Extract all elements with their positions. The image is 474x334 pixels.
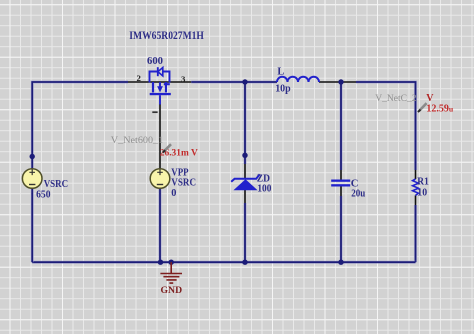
transistor Q1 body-diode loop [150,72,170,83]
label VSRC (V1) [44,179,68,190]
label 600 (MOSFET value) [147,56,163,67]
wire: right vertical below resistor [414,205,417,262]
junction dot inductor out [338,79,343,84]
junction dot capacitor bottom [338,260,343,265]
wire: top net to right corner [356,82,416,170]
wire: bottom ground net [32,261,415,264]
V2 plus sign [157,170,163,176]
svg-text:20u: 20u [351,188,365,199]
junction dot zener mid [242,153,247,158]
transistor Q1 body-diode triangle [158,68,163,76]
svg-text:VSRC: VSRC [44,179,68,190]
transistor Q1 gate stem [159,95,161,104]
svg-text:GND: GND [161,285,183,296]
value 100 [257,183,271,194]
svg-text:600: 600 [147,56,163,67]
transistor Q1 drain stub [152,82,154,92]
junction dot zener top [242,79,247,84]
ground bars [160,274,182,284]
junction dot zener bottom [242,260,247,265]
inductor L coil [277,77,319,82]
probe pencil left [163,144,171,152]
wire: resistor top lead (black) [415,170,417,179]
label IMW65R027M1H [129,28,204,42]
wire: left vertical below VSRC [31,188,34,262]
voltage source V1 (VSRC 650) [22,169,42,189]
wire: MOSFET pin3 to zener junction and inductor [191,80,277,83]
V2 minus sign [157,184,163,186]
junction dot left net [30,154,35,159]
pin number 2 [137,73,142,83]
junction dot GND tap [169,260,174,265]
wire: top net left segment (VSRC+ to MOSFET pin 2) [32,82,128,169]
voltage source V2 (VPP VSRC 0) [150,169,170,189]
transistor Q1 body-diode bar [157,67,159,76]
svg-text:100: 100 [257,183,271,194]
wire: resistor bottom lead (black) [415,195,417,205]
value 650 [36,190,50,201]
V1 plus sign [29,170,35,176]
wire: inductor right lead (black) [319,81,356,83]
value 0 [171,188,176,199]
wire: capacitor leads (black) [340,170,342,196]
svg-text:V_Net600_1: V_Net600_1 [111,136,164,146]
ground stem [170,262,172,273]
label VSRC (V2) [171,177,196,188]
probe reading 12.59u [426,104,454,115]
junction dot VPP bottom [158,260,163,265]
net label V_Net600_1 [111,136,164,146]
wire: zener leads (black) [244,164,246,203]
svg-text:10: 10 [417,187,427,198]
transistor Q1 channel bar [150,93,171,95]
wire: MOSFET lead segment (black) [128,81,191,83]
net label V_NetC_2 [375,93,416,104]
label GND [161,285,183,296]
svg-text:R1: R1 [417,177,429,188]
label C [351,179,359,190]
V1 minus sign [29,184,35,186]
wire: VPP bottom to ground net [158,188,161,262]
zener diode ZD triangle [233,179,257,190]
svg-text:V_NetC_2: V_NetC_2 [375,93,416,104]
probe label V right [426,93,434,104]
svg-text:V: V [426,93,434,104]
wire: capacitor branch upper [339,82,342,170]
probe pencil right [418,103,427,112]
svg-text:2: 2 [137,73,142,83]
resistor R1 zigzag [413,179,419,195]
capacitor C bottom plate [331,184,350,186]
wire: zener branch lower [243,203,246,262]
svg-text:10p: 10p [275,84,291,95]
pin number 3 [181,74,186,84]
transistor Q1 arrow stem [159,82,161,87]
label ZD [257,173,270,184]
svg-text:0: 0 [171,188,176,199]
svg-text:650: 650 [36,190,50,201]
svg-text:VSRC: VSRC [171,177,196,188]
label R1 [417,177,429,188]
value 10 [417,187,427,198]
wire: zener branch upper [243,82,246,164]
svg-text:3: 3 [181,74,186,84]
svg-text:IMW65R027M1H: IMW65R027M1H [129,28,204,42]
capacitor C top plate [331,180,350,182]
pin 1 tick [152,111,157,113]
transistor Q1 arrow [157,86,163,92]
label L [277,66,284,77]
zener diode ZD bar [231,174,260,182]
value 20u [351,188,365,199]
transistor Q1 source stub [164,82,170,92]
wire: MOSFET gate to VPP (black) [159,104,161,169]
probe reading 26.31m V [160,148,198,159]
svg-text:L: L [277,66,284,77]
label VPP [171,168,188,179]
svg-text:12.59u: 12.59u [426,104,454,115]
wire: capacitor branch lower [339,196,342,262]
value 10p [275,84,291,95]
